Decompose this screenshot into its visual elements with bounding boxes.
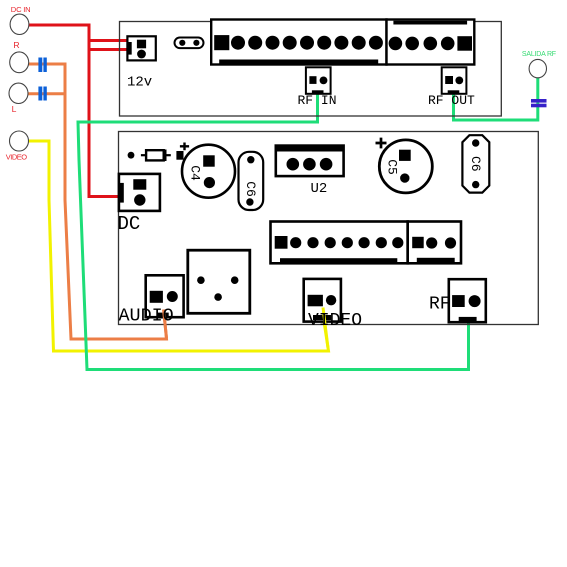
wire: yellow video from jack down	[28, 141, 329, 351]
svg-text:12v: 12v	[127, 75, 152, 91]
svg-text:RF: RF	[429, 295, 451, 315]
DC connector	[118, 174, 160, 211]
RF connector	[449, 279, 486, 322]
svg-text:C4: C4	[188, 165, 203, 181]
jack SALIDA RF	[529, 59, 546, 77]
wire: red branch to 12v pin2	[89, 39, 129, 50]
capacitor C5 plus sign	[376, 138, 387, 149]
label L	[12, 104, 17, 114]
capacitor C4	[182, 145, 235, 198]
label RF OUT	[428, 93, 475, 108]
svg-text:R: R	[13, 40, 19, 50]
label DC	[118, 213, 141, 235]
label R	[13, 40, 19, 50]
label DC IN	[11, 5, 31, 14]
capacitor on SALIDA RF line	[531, 99, 547, 107]
capacitor C6 right	[462, 135, 489, 192]
jack DC IN	[10, 14, 29, 34]
label RF	[429, 295, 451, 315]
jack R	[10, 52, 29, 73]
svg-text:RF OUT: RF OUT	[428, 93, 475, 108]
svg-text:AUDIO: AUDIO	[119, 306, 174, 327]
svg-text:L: L	[12, 104, 17, 114]
IC U2	[276, 146, 344, 177]
label SALIDA RF	[522, 51, 556, 58]
svg-text:U2: U2	[311, 181, 328, 197]
label 12v	[127, 75, 152, 91]
svg-text:SALIDA RF: SALIDA RF	[522, 51, 556, 58]
capacitor on L line	[38, 87, 46, 101]
tuner module left	[211, 20, 386, 65]
svg-text:DC IN: DC IN	[11, 5, 31, 14]
label RF IN	[298, 93, 337, 108]
capacitor on R line	[38, 58, 46, 73]
jack VIDEO	[10, 131, 29, 151]
label AUDIO	[119, 306, 174, 327]
svg-text:VIDEO: VIDEO	[6, 153, 28, 162]
label U2	[311, 181, 328, 197]
svg-text:C6: C6	[468, 156, 483, 172]
wire: orange tip into AUDIO pin (over bar)	[164, 310, 167, 339]
bottom board outline	[119, 132, 539, 325]
capacitor C6 left	[239, 152, 264, 210]
wire: green RF IN to board RF output	[78, 94, 469, 370]
wire: orange audio L to junction	[28, 92, 65, 95]
label VIDEO	[6, 153, 28, 162]
pad dot	[128, 152, 135, 159]
top board outline	[120, 22, 502, 117]
RF OUT connector	[442, 67, 467, 94]
RF IN connector	[306, 67, 331, 94]
svg-text:RF IN: RF IN	[298, 93, 337, 108]
wire: red down to DC connector	[89, 48, 120, 197]
header J1 left	[271, 222, 408, 264]
VIDEO connector	[304, 279, 341, 322]
wire: orange audio bus down and to AUDIO input	[65, 63, 167, 340]
capacitor C4 plus terminal	[176, 143, 189, 160]
AUDIO connector	[146, 275, 184, 317]
wire: orange audio R to junction	[28, 63, 65, 66]
wire: yellow tip into VIDEO pin (over bar)	[323, 308, 328, 349]
svg-text:C5: C5	[385, 159, 400, 175]
svg-text:C6: C6	[243, 181, 258, 197]
tuner module right	[387, 20, 475, 65]
12v power connector	[127, 36, 155, 60]
header J2 right	[408, 222, 461, 264]
wire: green RF OUT to SALIDA RF	[454, 75, 538, 120]
transformer T1	[188, 250, 250, 313]
jack L	[9, 83, 28, 103]
2-pin oval connector	[175, 38, 204, 49]
svg-text:VIDEO: VIDEO	[308, 311, 362, 331]
label VIDEO	[308, 311, 362, 331]
diode D1	[141, 150, 171, 162]
capacitor C5	[379, 140, 432, 193]
svg-text:DC: DC	[118, 213, 141, 235]
wire: red DC IN to 12v pin1	[25, 25, 129, 41]
